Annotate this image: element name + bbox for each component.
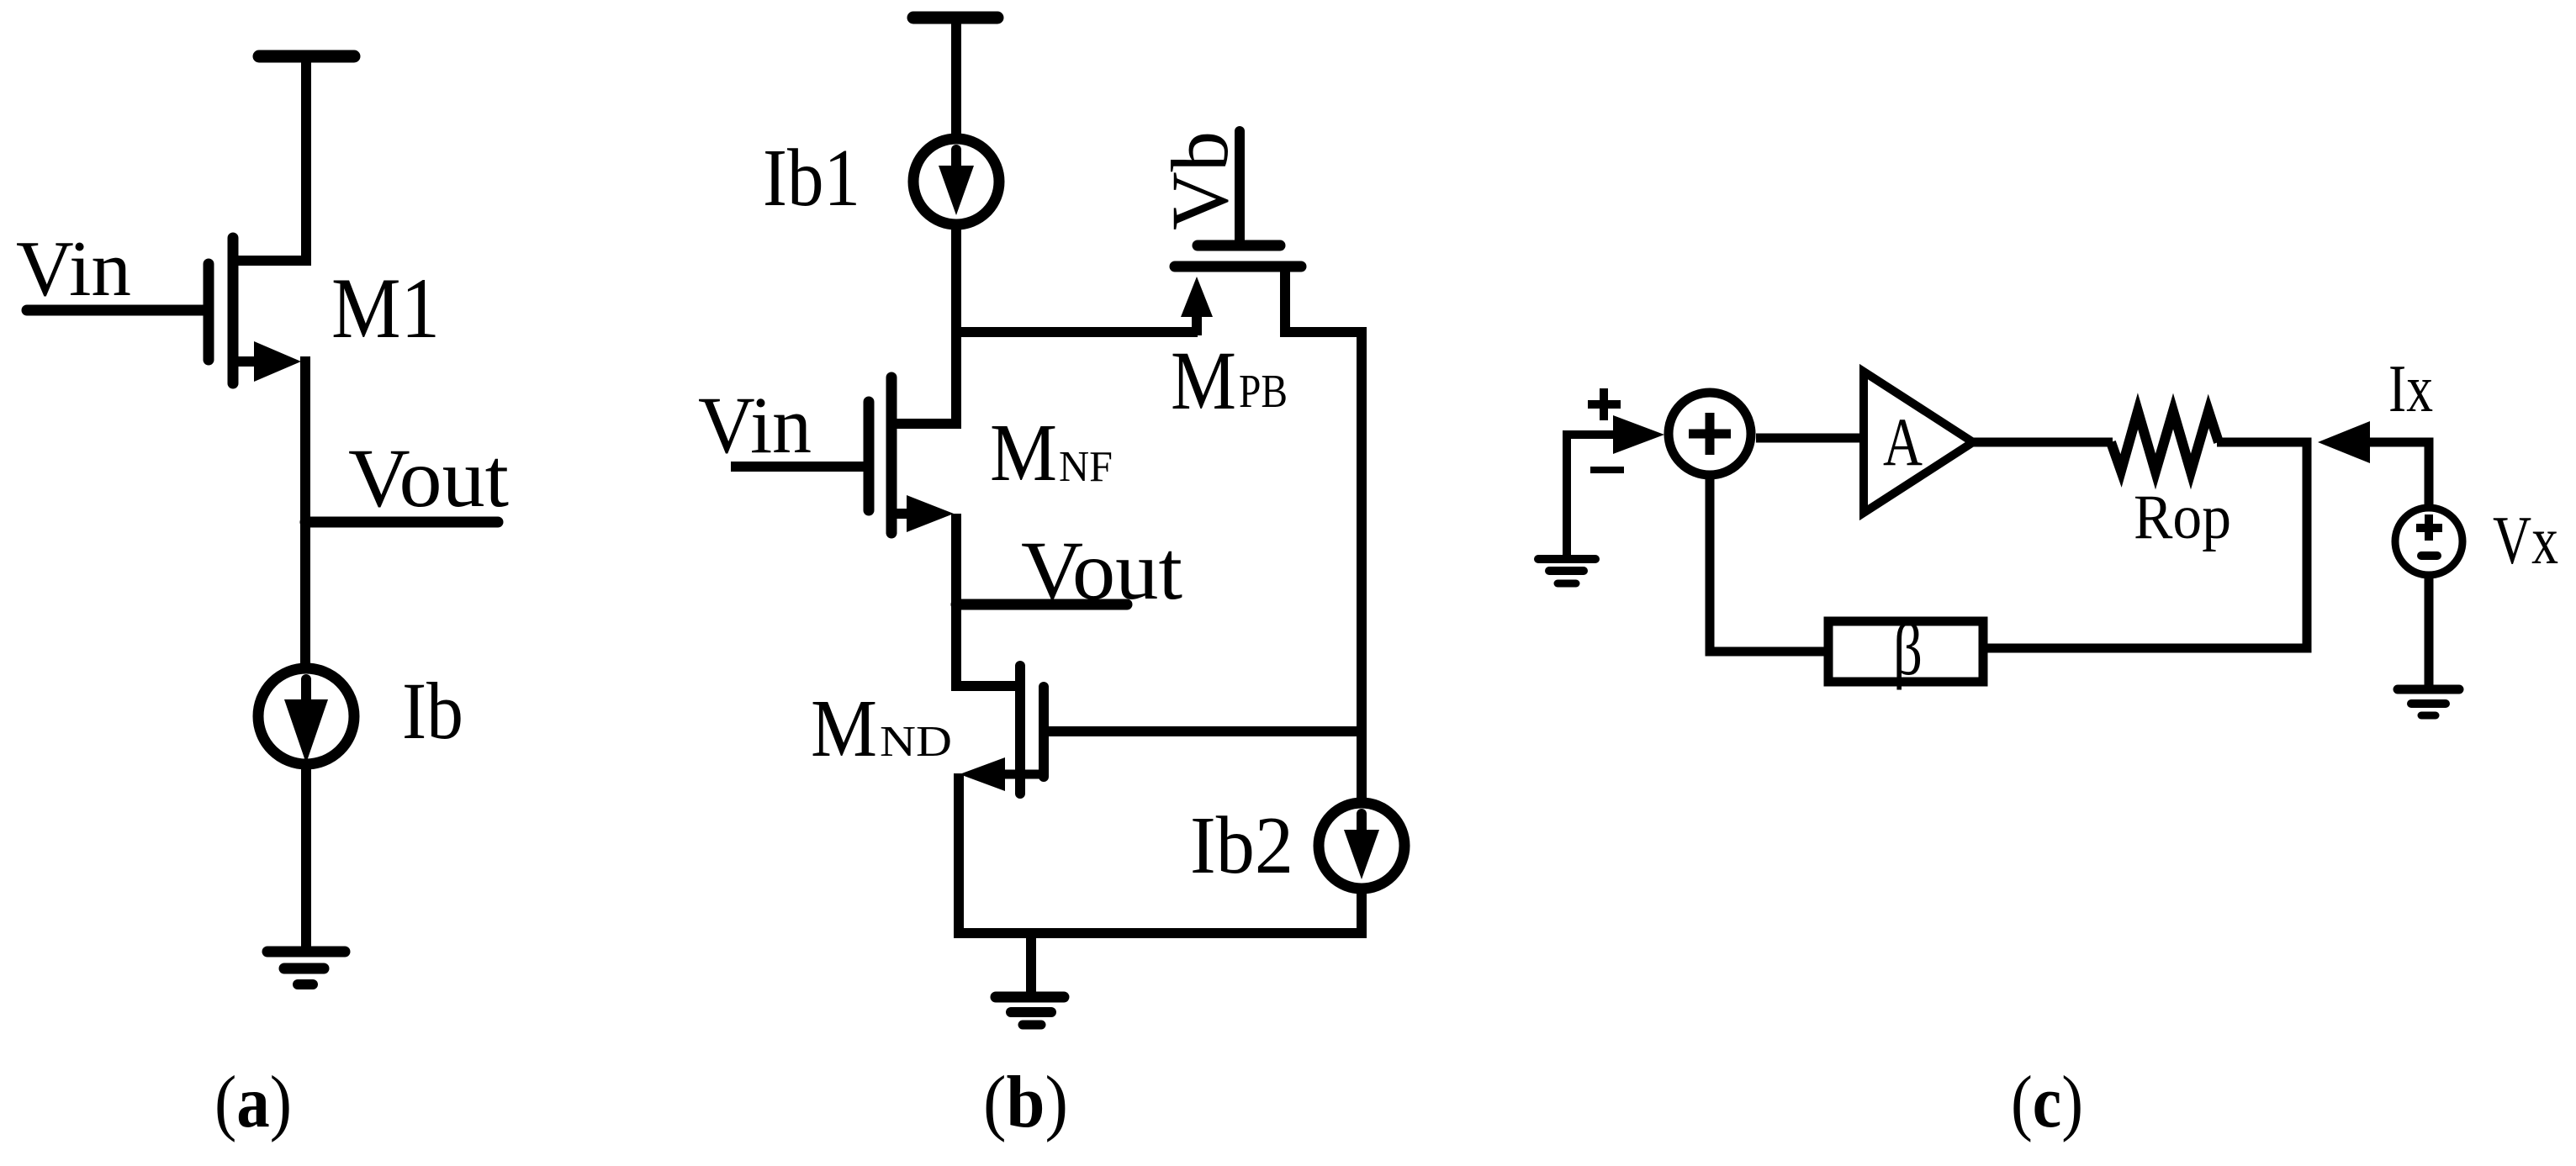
node wire to MPB source [956,327,1198,337]
svg-text:Vin: Vin [698,380,812,470]
svg-text:NF: NF [1059,443,1113,491]
svg-text:Vb: Vb [1155,131,1245,230]
wire amplifier to resistor [1973,438,2113,447]
ground (c right) [2398,685,2459,694]
svg-text:PB: PB [1239,366,1288,418]
Ib1 arrow [951,150,961,170]
Ix arrow [2318,421,2370,463]
plus inside summing node [1689,430,1731,439]
wire Ib1 to gate node [951,230,961,335]
node Vout (b) wire [956,599,1127,610]
MNF drain wire [891,419,961,429]
svg-text:(a): (a) [214,1062,292,1143]
transistor MNF channel bar [886,377,897,533]
plus sign at input [1588,400,1621,409]
svg-text:Ix: Ix [2388,352,2433,426]
bottom wire (b) [954,894,1362,933]
MND drain wire [1043,726,1367,736]
feedback wire from summing node down to beta box [1710,479,1828,652]
wire VDD to Ib1 [951,20,961,134]
summing node circle [1669,393,1751,475]
M1 source wire [233,356,256,367]
input arrow [1613,415,1664,454]
wire VDD to M1 drain [301,59,311,261]
Ib2 arrow [1357,814,1367,834]
wire summing node to amplifier [1756,434,1864,443]
svg-text:M1: M1 [331,261,440,356]
wire node down to MNF drain [951,332,961,424]
svg-text:Vout: Vout [348,431,509,525]
svg-text:Vx: Vx [2493,502,2558,578]
MNF source wire [891,509,908,519]
resistor Rop [2111,411,2219,472]
ground stem (b) [1026,933,1036,995]
MND gate elbow wire [951,681,1022,691]
current source Ib1 circle [913,139,999,224]
wire Vin lead (a) [27,305,209,316]
wire MNF source to MND gate [951,514,961,688]
input wire [1567,435,1616,561]
transistor MND channel bar [1039,687,1049,777]
voltage source Vx circle [2395,508,2462,575]
M1 drain wire [233,256,311,266]
current source Ib circle [258,668,354,764]
svg-text:M: M [990,408,1057,498]
wire Ib to ground (a) [301,769,311,952]
Vx plus [2416,524,2442,532]
node Vout (a) wire [305,517,498,528]
wire Vb lead (MPB gate) [1235,131,1245,245]
transistor M1 channel bar [228,238,239,383]
MPB source arrow [1181,277,1213,317]
MNF source arrow [907,495,954,532]
svg-text:(b): (b) [983,1062,1068,1143]
ground (a) [267,947,345,958]
power rail VDD (a) [259,50,354,63]
M1 source arrow [254,341,301,382]
wire Vx to ground [2425,578,2434,689]
op-amp A triangle [1864,372,1973,513]
wire MND source down [954,773,964,933]
wire Vin lead (b) [731,462,869,472]
wire M1 source to Ib [300,356,310,663]
feedback block beta box [1828,621,1983,682]
svg-text:Vout: Vout [1021,524,1182,617]
svg-text:β: β [1893,609,1923,691]
wire Ix arrow to Vx [2365,442,2429,504]
wire resistor to node, node down, feedback bottom to beta box [1983,442,2307,648]
MPB source stem [1192,312,1202,335]
svg-text:M: M [1171,334,1236,427]
svg-text:(c): (c) [2011,1062,2083,1143]
transistor MND gate bar [1015,666,1025,794]
svg-text:A: A [1883,404,1923,480]
power rail VDD (b) [913,12,997,24]
minus sign at input [1590,467,1624,473]
svg-text:Rop: Rop [2134,483,2231,552]
MPB drain wire down to Ib2 [1285,266,1362,798]
svg-text:Ib2: Ib2 [1190,800,1293,891]
ground (c input) [1538,555,1595,563]
svg-text:ND: ND [880,718,952,766]
MND source wire [1005,770,1044,779]
MND source arrow [960,757,1005,791]
ground (b) [996,992,1064,1003]
svg-text:Vin: Vin [16,225,131,313]
Ib arrow [301,679,311,703]
svg-text:Ib1: Ib1 [763,133,860,224]
svg-text:M: M [811,683,877,773]
svg-text:Ib: Ib [402,666,463,756]
Vx minus [2421,551,2437,560]
current source Ib2 circle [1319,803,1404,889]
transistor MPB gate bar [1198,240,1280,251]
transistor M1 gate bar [204,264,214,360]
transistor MPB channel bar [1175,261,1301,272]
transistor MNF gate bar [864,402,875,510]
